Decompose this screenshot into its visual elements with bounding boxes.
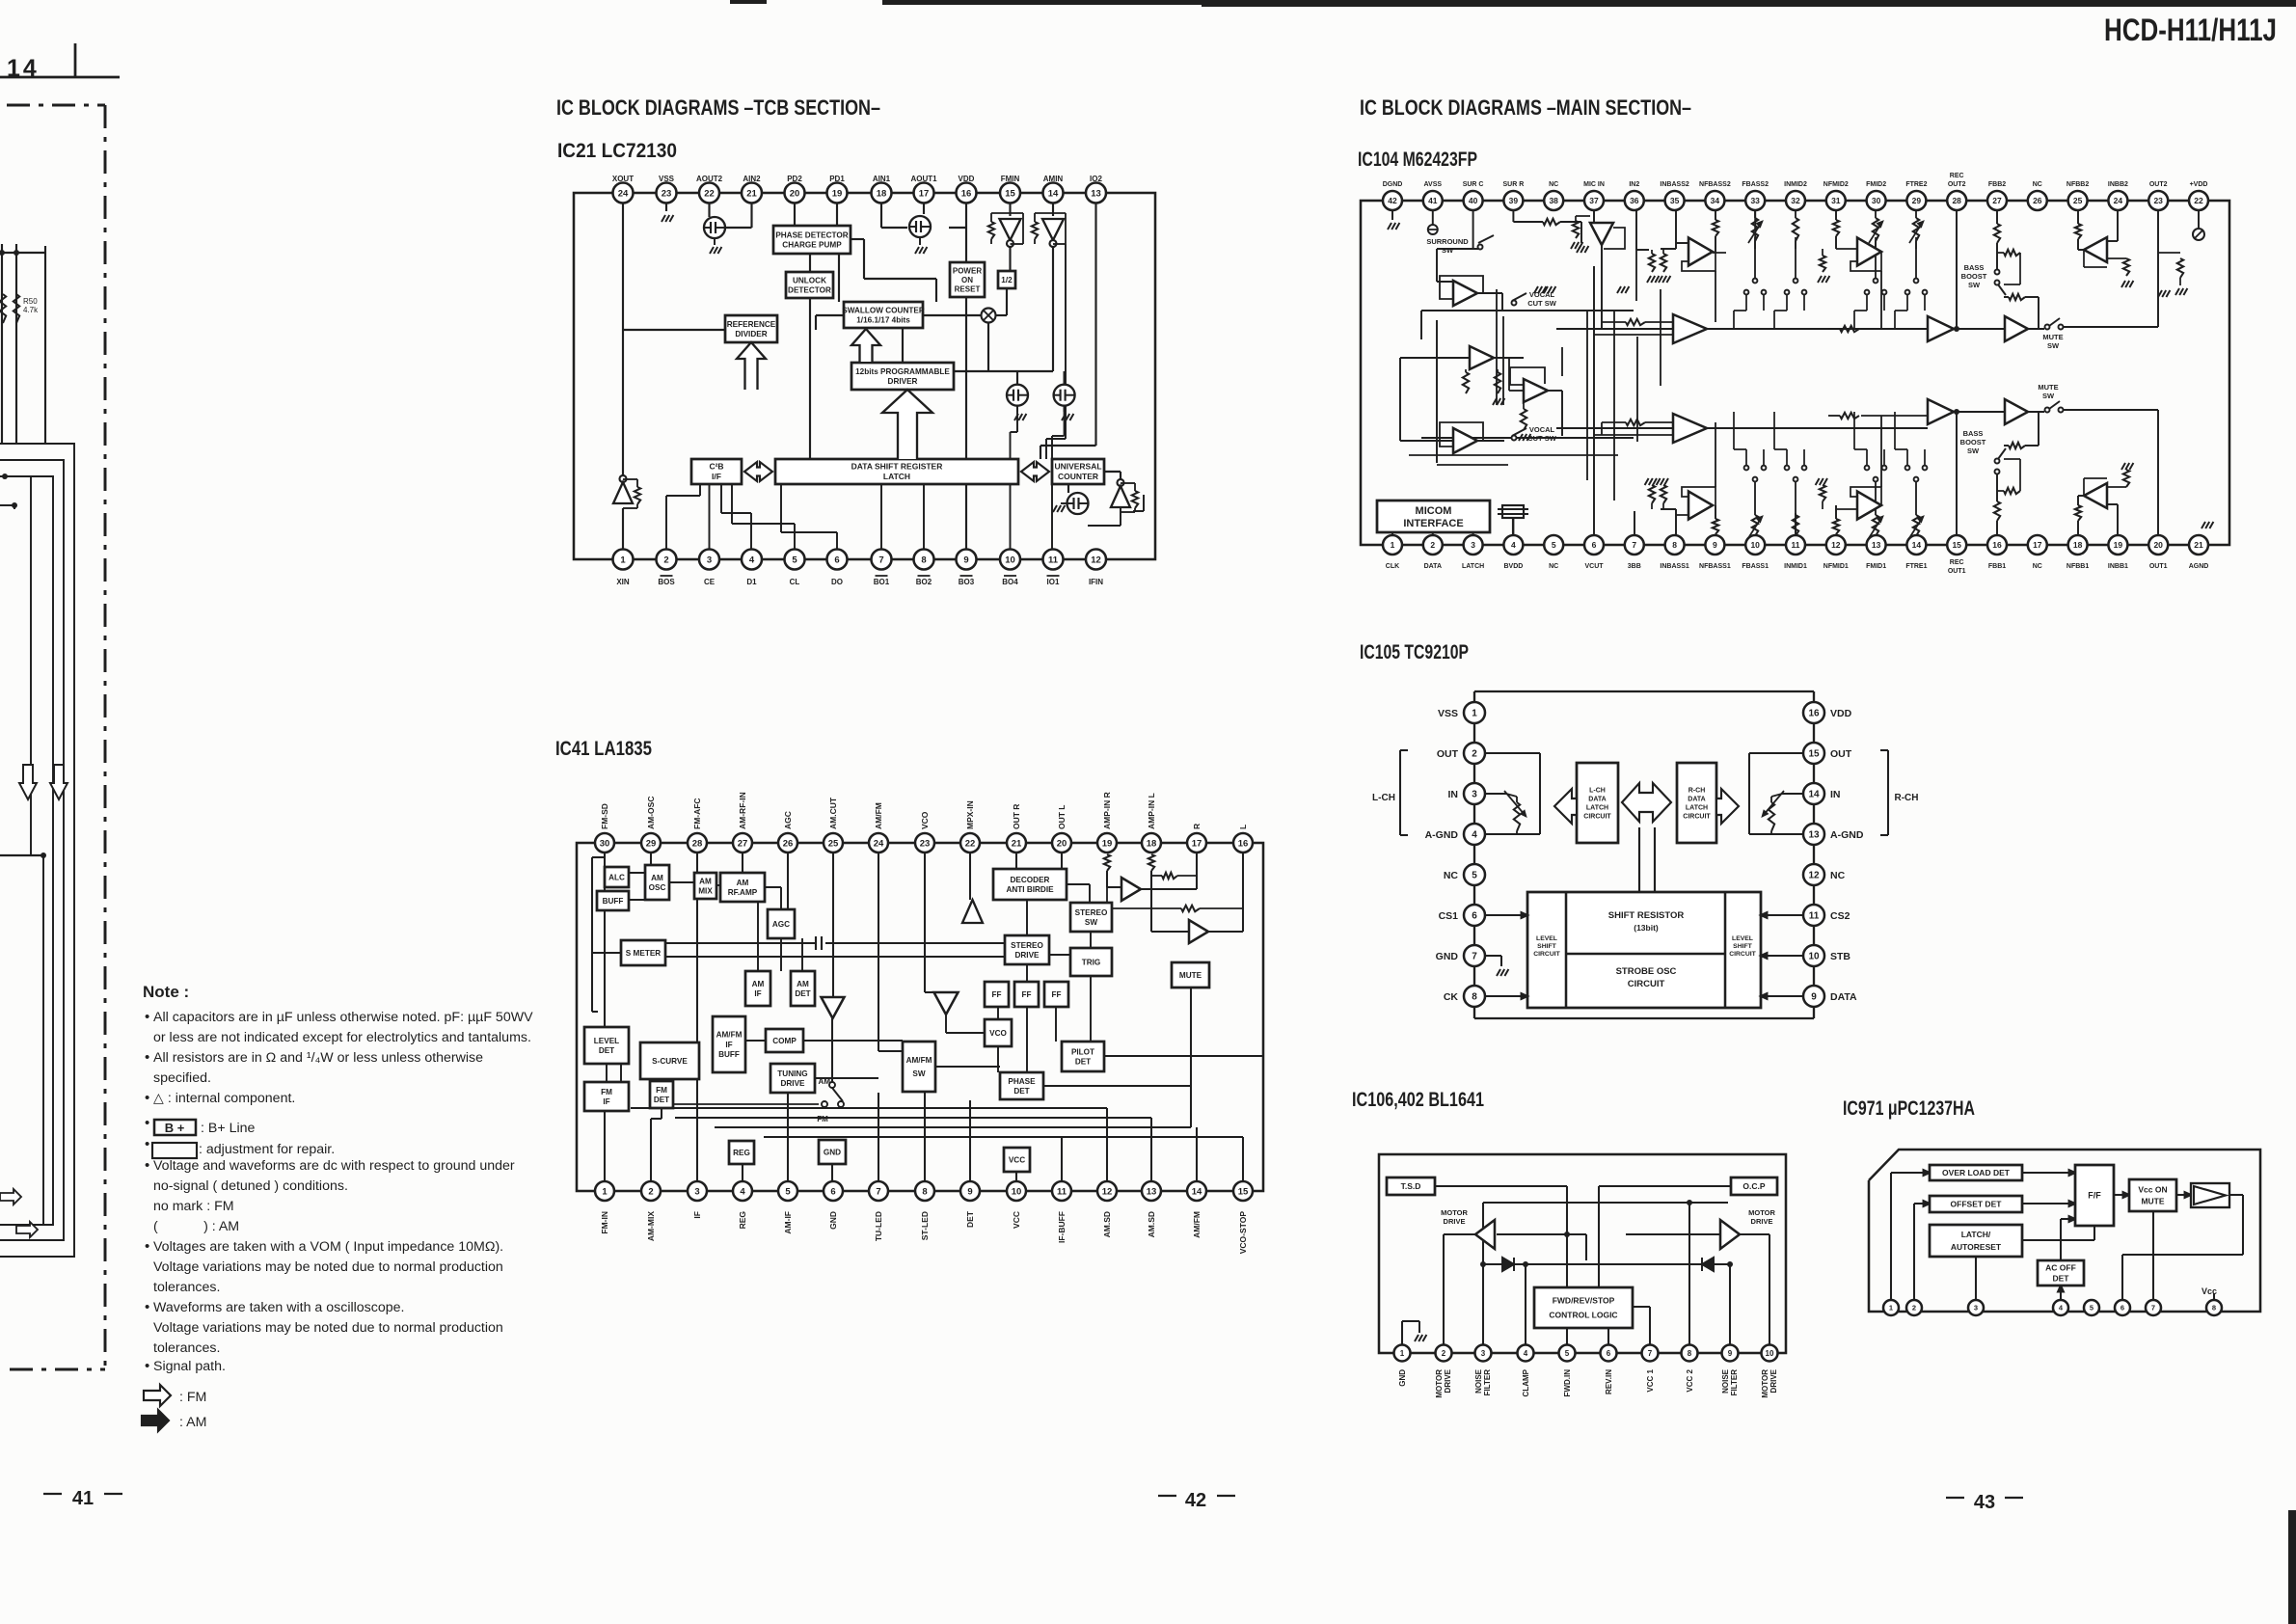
svg-text:IO2: IO2: [1090, 175, 1102, 183]
svg-text:C²B: C²B: [709, 462, 723, 472]
IC104 OUT2 branch resistor: [2158, 252, 2180, 254]
svg-text:AUTORESET: AUTORESET: [1951, 1242, 2002, 1252]
svg-text:DATA: DATA: [1688, 796, 1705, 802]
svg-text:STB: STB: [1830, 951, 1850, 962]
svg-text:VDD: VDD: [1830, 708, 1852, 719]
svg-text:VOCAL: VOCAL: [1529, 425, 1555, 434]
IC21 pin 8 BO2: [914, 550, 934, 570]
svg-text:6: 6: [2120, 1304, 2124, 1313]
svg-text:AIN1: AIN1: [873, 175, 891, 183]
svg-text:FILTER: FILTER: [1483, 1369, 1492, 1396]
svg-text:29: 29: [646, 838, 657, 849]
svg-text:14: 14: [1048, 188, 1059, 199]
IC21 inverter right (IFIN): [1118, 479, 1124, 486]
svg-text:TUNING: TUNING: [777, 1069, 807, 1078]
svg-text:D1: D1: [746, 578, 757, 586]
IC41 pin 15 VCO-STOP: [1233, 1181, 1253, 1201]
IC41 out amp R: [1121, 878, 1141, 901]
svg-text:FM-AFC: FM-AFC: [692, 798, 702, 829]
svg-text:AM: AM: [651, 874, 663, 882]
svg-text:DETECTOR: DETECTOR: [788, 285, 831, 294]
IC21 phase comparator xor node: [982, 309, 996, 323]
svg-text:FF: FF: [991, 990, 1001, 999]
svg-text:F/F: F/F: [2088, 1191, 2101, 1201]
svg-text:IC41 LA1835: IC41 LA1835: [555, 738, 652, 760]
IC104 pin 7 3BB: [1625, 535, 1644, 555]
IC41 pin 3 IF: [688, 1181, 707, 1201]
IC971 AC OFF DET block: [2038, 1260, 2084, 1286]
IC21 pin 24 XOUT: [613, 183, 634, 203]
svg-text:PHASE DETECTOR: PHASE DETECTOR: [775, 230, 848, 239]
svg-text:: adjustment for repair.: : adjustment for repair.: [199, 1142, 335, 1157]
IC105 shift resistor / strobe osc block: [1527, 892, 1761, 1008]
svg-text:IN2: IN2: [1629, 181, 1639, 188]
svg-text:10: 10: [1766, 1349, 1774, 1358]
svg-text:7: 7: [878, 555, 883, 565]
svg-text:ON: ON: [961, 276, 973, 284]
svg-text:DRIVE: DRIVE: [1444, 1217, 1466, 1226]
svg-text:OFFSET DET: OFFSET DET: [1951, 1199, 2003, 1208]
IC104 pin 13 FMID1: [1867, 535, 1886, 555]
svg-text:FF: FF: [1051, 990, 1061, 999]
resistor (left, cut): [0, 294, 6, 323]
svg-text:42: 42: [1185, 1490, 1206, 1511]
IC105 pin 8 CK: [1464, 986, 1485, 1007]
IC104 VDD symbol: [2198, 210, 2200, 229]
IC104 amp bottom INBASS1/NFBASS1: [1688, 492, 1713, 520]
IC104 amp lower chain first: [1673, 414, 1707, 443]
svg-text:12: 12: [1091, 555, 1101, 565]
svg-text:32: 32: [1791, 196, 1800, 205]
IC105 pin 11 CS2: [1803, 905, 1824, 926]
IC21 pin 18 AIN1: [872, 183, 892, 203]
svg-text:S-CURVE: S-CURVE: [652, 1057, 688, 1066]
IC41 block STEREO SW: [1070, 903, 1112, 932]
IC971 wires: [1891, 1170, 2243, 1300]
svg-text:8: 8: [2212, 1304, 2216, 1313]
IC104 grounds: [1534, 286, 1538, 293]
IC104 pin 24 INBB2: [2108, 191, 2127, 210]
note AM arrow symbol: [142, 1410, 169, 1431]
svg-text:1: 1: [1889, 1304, 1893, 1313]
signal flow arrow FM (left): [0, 1189, 21, 1204]
IC41 pin 7 TU-LED: [869, 1181, 888, 1201]
IC41 pin 14 AM/FM: [1187, 1181, 1206, 1201]
svg-text:NOISE: NOISE: [1474, 1368, 1483, 1394]
svg-text:MUTE: MUTE: [1179, 971, 1202, 980]
IC41 pin 11 IF-BUFF: [1052, 1181, 1071, 1201]
IC104 amp INBASS2/NFBASS2: [1688, 238, 1713, 266]
svg-text:22: 22: [704, 188, 715, 199]
IC104 pin 12 NFMID1: [1826, 535, 1846, 555]
IC104 amp A4: [1453, 428, 1477, 453]
svg-text:16: 16: [1808, 709, 1820, 719]
svg-text:CS2: CS2: [1830, 910, 1850, 922]
svg-text:DET: DET: [2053, 1273, 2070, 1283]
svg-text:AMP-IN R: AMP-IN R: [1102, 792, 1112, 829]
svg-text:AVSS: AVSS: [1424, 181, 1443, 188]
IC106 motor drive amp right: [1720, 1220, 1740, 1249]
IC41 block STEREO DRIVE: [1005, 935, 1049, 964]
svg-text:OUT2: OUT2: [1948, 181, 1966, 188]
svg-text:INMID2: INMID2: [1784, 181, 1807, 188]
IC41 block FM DET: [650, 1081, 673, 1108]
IC104 amp upper mid: [1928, 316, 1954, 341]
svg-text:23: 23: [920, 838, 931, 849]
svg-text:4: 4: [1524, 1349, 1528, 1358]
svg-text:3: 3: [1481, 1349, 1486, 1358]
svg-text:3: 3: [1471, 540, 1475, 550]
svg-text:9: 9: [1728, 1349, 1733, 1358]
svg-text:20: 20: [2153, 540, 2163, 550]
svg-text:AM: AM: [819, 1077, 831, 1086]
svg-text:AM: AM: [737, 879, 749, 887]
IC104 pin 11 INMID1: [1786, 535, 1805, 555]
IC104 pin 40 SUR C: [1464, 191, 1483, 210]
svg-text:1: 1: [1400, 1349, 1405, 1358]
svg-text:SUR R: SUR R: [1503, 181, 1525, 188]
svg-text:NC: NC: [1830, 870, 1846, 881]
IC21 block: unlock detector: [786, 272, 833, 298]
svg-text:4: 4: [1511, 540, 1516, 550]
IC21 wire: universal counter links: [1067, 483, 1069, 493]
svg-text:UNIVERSAL: UNIVERSAL: [1054, 462, 1101, 472]
svg-text:12: 12: [1102, 1186, 1113, 1197]
svg-text:DRIVE: DRIVE: [780, 1079, 805, 1088]
IC971 pin 2: [1906, 1300, 1922, 1315]
svg-text:8: 8: [922, 1186, 927, 1197]
svg-text:NFBB2: NFBB2: [2066, 181, 2089, 188]
wire to node: [0, 504, 14, 506]
svg-text:4: 4: [749, 555, 755, 565]
svg-text:INBB1: INBB1: [2108, 563, 2128, 570]
svg-text:3BB: 3BB: [1628, 563, 1641, 570]
IC971 output buffer amp: [2191, 1183, 2229, 1207]
IC106 pin 6 REV.IN: [1601, 1345, 1617, 1362]
IC104 pin 30 FMID2: [1867, 191, 1886, 210]
svg-text:PHASE: PHASE: [1008, 1077, 1036, 1086]
IC105 pin 15 OUT: [1803, 743, 1824, 764]
IC105 pin 3 IN: [1464, 783, 1485, 804]
IC21 pin 3 CE: [699, 550, 719, 570]
IC105 L-CH data latch block: [1577, 763, 1618, 843]
svg-text:AMIN: AMIN: [1043, 175, 1064, 183]
IC105 pin 4 A-GND: [1464, 824, 1485, 845]
svg-text:BOOST: BOOST: [1961, 272, 1987, 281]
svg-text:7: 7: [876, 1186, 880, 1197]
svg-text:OUT1: OUT1: [1948, 568, 1966, 575]
svg-text:4: 4: [1472, 830, 1477, 841]
IC41 block S-CURVE: [640, 1042, 699, 1079]
svg-text:12: 12: [1808, 871, 1820, 881]
svg-text:I/F: I/F: [712, 472, 721, 481]
svg-text:INBASS1: INBASS1: [1660, 563, 1688, 570]
IC104 pin 5 NC: [1544, 535, 1563, 555]
IC104 amp A1: [1453, 281, 1477, 306]
IC106 pin 3 NOISE:FILTER: [1475, 1345, 1492, 1362]
signal flow arrow AM (left): [16, 1222, 38, 1237]
IC21 bidirectional bus arrows: [744, 462, 772, 481]
svg-text:A-GND: A-GND: [1425, 829, 1459, 841]
svg-text:11: 11: [1057, 1186, 1067, 1197]
svg-text:CIRCUIT: CIRCUIT: [1683, 813, 1711, 820]
svg-text:36: 36: [1630, 196, 1639, 205]
IC41 pin 16 L: [1233, 833, 1253, 853]
IC104 pin 31 NFMID2: [1826, 191, 1846, 210]
IC971 pin 1: [1883, 1300, 1899, 1315]
svg-text:22: 22: [965, 838, 976, 849]
svg-text:MICOM: MICOM: [1416, 505, 1452, 517]
IC21 pin 12 IFIN: [1086, 550, 1106, 570]
IC41 block S METER: [621, 940, 665, 965]
svg-text:DET: DET: [795, 989, 810, 998]
IC104 amp bottom INMID1/NFMID1: [1857, 492, 1881, 520]
svg-text:27: 27: [738, 838, 748, 849]
note symbol B+ box: [154, 1120, 196, 1135]
svg-text:FMID2: FMID2: [1866, 181, 1886, 188]
svg-text:R50: R50: [23, 297, 38, 306]
svg-text:3: 3: [707, 555, 712, 565]
svg-text:SW: SW: [1085, 918, 1097, 927]
svg-text:•: •: [145, 1299, 149, 1315]
svg-text:AMP-IN L: AMP-IN L: [1147, 793, 1156, 829]
svg-text:XIN: XIN: [616, 578, 630, 586]
svg-text:FM: FM: [817, 1115, 828, 1123]
IC41 pin 30 FM-SD: [595, 833, 614, 853]
svg-text:OVER LOAD DET: OVER LOAD DET: [1942, 1168, 2011, 1177]
IC104 amp upper right: [2005, 316, 2028, 341]
svg-text:OUT1: OUT1: [2149, 563, 2168, 570]
IC104 pin 3 LATCH: [1464, 535, 1483, 555]
IC21 pin 7 BO1: [872, 550, 892, 570]
svg-text:27: 27: [1992, 196, 2002, 205]
svg-text:5: 5: [2090, 1304, 2093, 1313]
svg-text:4.7k: 4.7k: [23, 306, 39, 314]
svg-text:AM-IF: AM-IF: [783, 1211, 793, 1234]
IC21 VDD stub near pin16: [949, 227, 966, 229]
svg-text:33: 33: [1750, 196, 1760, 205]
svg-text:VCO-STOP: VCO-STOP: [1238, 1211, 1248, 1255]
svg-text:CUT SW: CUT SW: [1527, 299, 1557, 308]
IC21 pin 19 PD1: [827, 183, 848, 203]
svg-text:CS1: CS1: [1439, 910, 1459, 922]
svg-text:LEVEL: LEVEL: [1536, 935, 1557, 942]
svg-text:DRIVE: DRIVE: [1444, 1368, 1452, 1393]
svg-text:STEREO: STEREO: [1011, 941, 1043, 950]
IC971 pin 5: [2084, 1300, 2099, 1315]
svg-text:TRIG: TRIG: [1082, 958, 1101, 966]
svg-text:VOCAL: VOCAL: [1529, 290, 1555, 299]
IC41 block COMP: [766, 1029, 803, 1052]
svg-text:AM/FM: AM/FM: [1192, 1211, 1202, 1238]
svg-text:41: 41: [72, 1488, 94, 1509]
svg-text:21: 21: [746, 188, 757, 199]
svg-text:AM/FM: AM/FM: [716, 1031, 743, 1040]
IC105 pin 16 VDD: [1803, 702, 1824, 723]
svg-text:1: 1: [620, 555, 626, 565]
svg-text:3: 3: [1472, 790, 1477, 800]
svg-text:20: 20: [790, 188, 800, 199]
svg-text:L-CH: L-CH: [1372, 793, 1395, 803]
IC41 pin 28 FM-AFC: [688, 833, 707, 853]
IC21 mosfet C: [1007, 385, 1028, 406]
svg-text:NFMID1: NFMID1: [1823, 563, 1849, 570]
svg-text:FTRE2: FTRE2: [1905, 181, 1927, 188]
svg-text:COMP: COMP: [772, 1037, 797, 1045]
IC41 block LEVEL DET: [584, 1027, 629, 1064]
svg-text:Note :: Note :: [143, 983, 189, 1001]
IC104 pin 27 FBB2: [1987, 191, 2007, 210]
svg-text:REC: REC: [1950, 559, 1964, 566]
svg-text:DRIVE: DRIVE: [1751, 1217, 1773, 1226]
svg-text:11: 11: [1792, 540, 1800, 550]
svg-text:LEVEL: LEVEL: [1732, 935, 1753, 942]
IC21 AMIN input inverter: [1042, 219, 1064, 240]
IC104 amp OUT2 (left-facing): [2084, 237, 2107, 262]
IC104 pin 17 NC: [2028, 535, 2047, 555]
IC104 internal wires: [1392, 210, 2204, 536]
svg-text:FILTER: FILTER: [1730, 1369, 1739, 1396]
IC971 Vcc ON MUTE block: [2129, 1179, 2176, 1211]
svg-text:24: 24: [874, 838, 884, 849]
svg-text:•: •: [145, 1009, 149, 1025]
IC104 amp INMID2/NFMID2: [1857, 238, 1881, 266]
svg-text:14: 14: [1192, 1186, 1202, 1197]
IC104 pot arrows bottom: [1754, 511, 1756, 515]
svg-text:30: 30: [1872, 196, 1881, 205]
IC105 R-CH data latch block: [1677, 763, 1716, 843]
svg-text:FTRE1: FTRE1: [1905, 563, 1927, 570]
svg-text:FBB2: FBB2: [1988, 181, 2006, 188]
svg-text:AGC: AGC: [772, 920, 790, 929]
IC104 amp upper chain first: [1673, 314, 1707, 343]
svg-text:3: 3: [1974, 1304, 1978, 1313]
svg-text:Signal path.: Signal path.: [153, 1359, 226, 1374]
page number 42: [1158, 1495, 1176, 1497]
svg-text:REFERENCE: REFERENCE: [727, 320, 776, 329]
svg-text:5: 5: [1472, 871, 1477, 881]
IC41 pin 18 AMP-IN L: [1142, 833, 1161, 853]
svg-text:FM: FM: [601, 1088, 612, 1096]
IC104 NFBB2/INBB2 output stage upper: [2077, 210, 2079, 224]
IC41 pin 8 ST-LED: [915, 1181, 934, 1201]
svg-text:DET: DET: [1075, 1057, 1091, 1066]
svg-text:AM/FM: AM/FM: [874, 802, 883, 829]
IC21 pin 6 DO: [827, 550, 848, 570]
IC21 pin 22 AOUT2: [699, 183, 719, 203]
svg-text:S METER: S METER: [626, 949, 661, 958]
svg-text:1: 1: [602, 1186, 608, 1197]
svg-text:DO: DO: [831, 578, 843, 586]
svg-text:43: 43: [1974, 1492, 1995, 1513]
svg-text:28: 28: [692, 838, 703, 849]
IC971 outer boundary with chamfer: [1869, 1150, 2260, 1312]
svg-text:RESET: RESET: [955, 284, 981, 293]
IC105 pin column lines: [1473, 713, 1475, 1018]
svg-text:SW: SW: [1442, 246, 1454, 255]
svg-text:IC21 LC72130: IC21 LC72130: [557, 140, 677, 162]
IC104 extra bus wires: [1409, 249, 1928, 511]
svg-text:2: 2: [1912, 1304, 1916, 1313]
IC105 bus to shift resistor: [1638, 827, 1640, 892]
svg-text:19: 19: [2114, 540, 2123, 550]
svg-text:VCC 2: VCC 2: [1686, 1368, 1694, 1392]
svg-text:16: 16: [961, 188, 972, 199]
IC105 pin 9 DATA: [1803, 986, 1824, 1007]
IC105 pin 2 OUT: [1464, 743, 1485, 764]
IC21 pin 15 FMIN: [1000, 183, 1020, 203]
IC971 pin 3: [1968, 1300, 1984, 1315]
svg-text:NFBB1: NFBB1: [2066, 563, 2089, 570]
svg-text:4: 4: [740, 1186, 745, 1197]
IC41 resistor pin18: [1148, 854, 1154, 871]
IC971 pin 8: [2206, 1300, 2222, 1315]
svg-text:17: 17: [1192, 838, 1202, 849]
svg-text:NOISE: NOISE: [1721, 1368, 1730, 1394]
svg-text:Voltage variations may be note: Voltage variations may be noted due to n…: [153, 1259, 503, 1275]
svg-text:AM-RF-IN: AM-RF-IN: [738, 792, 747, 829]
svg-text:REC: REC: [1950, 173, 1964, 179]
svg-text:18: 18: [1147, 838, 1157, 849]
svg-text:37: 37: [1589, 196, 1599, 205]
svg-text:IC BLOCK DIAGRAMS –TCB SECTIO: IC BLOCK DIAGRAMS –TCB SECTION–: [556, 95, 880, 120]
svg-text:34: 34: [1711, 196, 1720, 205]
svg-text:10: 10: [1005, 555, 1015, 565]
IC971 pin 7: [2146, 1300, 2161, 1315]
svg-text:SUR C: SUR C: [1463, 181, 1484, 188]
svg-text:OUT L: OUT L: [1057, 805, 1067, 830]
IC105 arrow left: [1554, 789, 1577, 824]
svg-text:IN: IN: [1448, 789, 1459, 800]
svg-text:AM: AM: [797, 980, 809, 988]
IC106 pin 2 MOTOR:DRIVE: [1436, 1345, 1452, 1362]
svg-text:tolerances.: tolerances.: [153, 1340, 220, 1356]
IC106 pin 5 FWD.IN: [1559, 1345, 1576, 1362]
svg-text:40: 40: [1469, 196, 1478, 205]
IC104 pin 41 AVSS: [1423, 191, 1443, 210]
svg-text:NFBASS1: NFBASS1: [1699, 563, 1731, 570]
IC41 block AM DET: [791, 971, 815, 1006]
svg-text:Voltages are taken with a VOM: Voltages are taken with a VOM ( Input im…: [153, 1239, 503, 1255]
svg-text:12bits PROGRAMMABLE: 12bits PROGRAMMABLE: [855, 367, 950, 376]
IC104 center-left web wires: [1496, 289, 1498, 405]
svg-text:BO2: BO2: [916, 578, 932, 586]
IC105 double arrow center: [1622, 783, 1671, 822]
IC41 pin 29 AM-OSC: [641, 833, 661, 853]
IC971 OVER LOAD DET block: [1930, 1165, 2022, 1180]
svg-text:5: 5: [1552, 540, 1556, 550]
svg-text:BVDD: BVDD: [1503, 563, 1523, 570]
svg-text:VSS: VSS: [1438, 708, 1458, 719]
IC104 pin 14 FTRE1: [1906, 535, 1926, 555]
IC21 crystal inverter left: [620, 475, 627, 482]
svg-text:•: •: [145, 1115, 149, 1131]
svg-text:BO1: BO1: [874, 578, 890, 586]
svg-text:13: 13: [1872, 540, 1881, 550]
svg-text:9: 9: [963, 555, 968, 565]
IC21 block: phase detector charge pump: [773, 226, 851, 254]
svg-text:SW: SW: [2047, 341, 2060, 350]
page fold dash-dot border: [7, 104, 105, 107]
IC41 pin 17 R: [1187, 833, 1206, 853]
svg-text:FMID1: FMID1: [1866, 563, 1886, 570]
svg-text:BUFF: BUFF: [603, 897, 624, 906]
svg-text:OSC: OSC: [649, 883, 666, 892]
IC104 signal bus wires: [1512, 293, 1526, 301]
IC41 feedback resistor R: [1162, 873, 1177, 879]
svg-text:29: 29: [1912, 196, 1922, 205]
svg-text:41: 41: [1428, 196, 1438, 205]
